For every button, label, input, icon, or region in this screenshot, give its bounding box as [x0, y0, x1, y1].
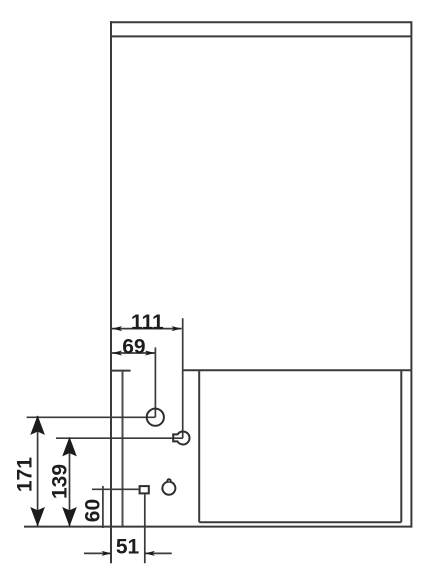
dimension line 111: [112, 328, 182, 330]
dimension line 69: [112, 352, 155, 354]
arrow 69 right: [145, 351, 155, 356]
extension line right of 51: [144, 494, 146, 563]
svg-text:60: 60: [82, 499, 105, 522]
dimension line 60: [102, 486, 104, 528]
rail vertical: [122, 371, 124, 527]
extension line top of 171: [27, 416, 156, 418]
hole keyhole: [173, 432, 189, 445]
svg-text:111: 111: [131, 311, 164, 334]
extension line top of 60: [92, 488, 139, 490]
cabinet top edge: [110, 21, 411, 23]
extension line right of 111: [182, 318, 184, 438]
cabinet bottom edge / dim extension: [24, 526, 411, 528]
hole teardrop: [162, 479, 175, 494]
arrow 171 top: [30, 415, 45, 435]
extension line right of 69: [154, 347, 156, 417]
svg-text:139: 139: [48, 464, 71, 499]
cabinet left edge / 51 left extension: [110, 21, 112, 563]
arrow 171 bottom: [30, 507, 45, 527]
arrow 139 top: [62, 437, 77, 457]
hole circle large: [147, 409, 164, 426]
arrow 51 left: [102, 551, 112, 556]
arrow 139 bottom: [62, 507, 77, 527]
dimension line 51 left tail: [84, 552, 112, 554]
svg-text:171: 171: [14, 457, 37, 492]
dimension line 171: [37, 416, 39, 526]
arrow 111 left: [112, 326, 122, 331]
arrow 51 right: [145, 551, 155, 556]
extension line top of 139: [56, 437, 183, 439]
cabinet top rail line: [110, 35, 411, 37]
recess right edge: [400, 370, 402, 522]
cabinet right edge: [410, 21, 412, 527]
left tick: [111, 370, 131, 372]
dimension line 51 right tail: [145, 552, 172, 554]
svg-text:69: 69: [122, 335, 145, 358]
svg-text:51: 51: [116, 535, 140, 558]
arrow 111 right: [172, 326, 182, 331]
arrow 69 left: [112, 351, 122, 356]
hole square: [140, 486, 149, 493]
divider line: [183, 369, 412, 371]
recess bottom edge: [199, 521, 401, 523]
dimension line 139: [69, 438, 71, 527]
recess left edge: [198, 370, 200, 522]
